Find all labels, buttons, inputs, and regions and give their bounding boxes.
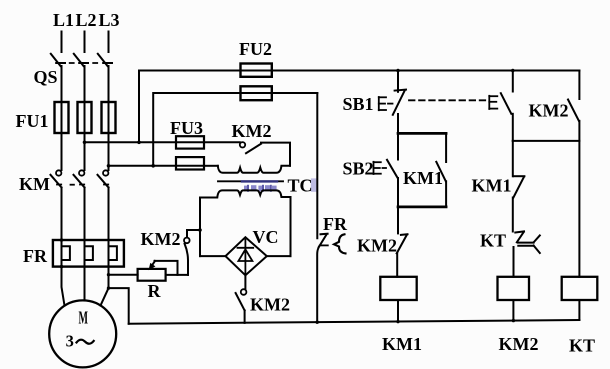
contactor contact KM2 (top, TC primary) bbox=[240, 142, 290, 166]
junction dots on FR box bbox=[60, 238, 64, 242]
button SB2 actuator E bbox=[374, 162, 387, 174]
wire riser to FU2 top bbox=[139, 71, 241, 143]
FR heater element 3 bbox=[109, 246, 117, 260]
button SB1 NC contact bbox=[393, 71, 406, 134]
svg-text:VC: VC bbox=[253, 227, 279, 247]
contactor KM main pole 1 bbox=[51, 170, 62, 266]
wire control left rail upper bbox=[316, 93, 318, 238]
coil KT bbox=[562, 277, 598, 300]
wire fuse2 to KM pole2 bbox=[84, 133, 86, 170]
motor M circle bbox=[49, 300, 116, 367]
svg-text:FU3: FU3 bbox=[170, 118, 203, 138]
wire top rail bbox=[272, 70, 580, 72]
fuse FU1 pole 3 bbox=[102, 102, 116, 133]
svg-text:QS: QS bbox=[33, 67, 57, 87]
switch QS pole 3 bbox=[98, 54, 112, 102]
svg-text:SB2: SB2 bbox=[342, 159, 373, 179]
contact KM2 (top right) bbox=[568, 71, 579, 277]
contactor contact KM2 (brake, near R) bbox=[184, 230, 200, 275]
contactor contact KM2 (below VC) bbox=[236, 275, 247, 323]
svg-text:KM1: KM1 bbox=[382, 334, 422, 354]
wire fuse1 to KM pole1 bbox=[61, 133, 63, 170]
wire secondary left leg bbox=[199, 198, 201, 257]
wire secondary right leg bbox=[290, 197, 292, 256]
button SB1 second NO contact bbox=[501, 71, 513, 141]
fuse FU2 upper bbox=[241, 64, 272, 77]
svg-text:KM1: KM1 bbox=[472, 176, 512, 196]
contact KM1 (parallel) bbox=[436, 133, 446, 207]
svg-text:TC: TC bbox=[287, 176, 312, 196]
svg-text:KM2: KM2 bbox=[141, 229, 181, 249]
wire phase3 to FU3 bottom bbox=[109, 165, 177, 167]
QS mechanical link dashes bbox=[70, 62, 98, 64]
timed contact KT bbox=[514, 231, 540, 276]
svg-text:KM2: KM2 bbox=[250, 295, 290, 315]
svg-text:L1: L1 bbox=[53, 10, 74, 30]
wire to rectifier right bbox=[267, 255, 291, 257]
wire riser to FU2 bottom bbox=[153, 93, 240, 166]
svg-text:KM2: KM2 bbox=[529, 101, 569, 121]
R wiper arrow bbox=[149, 261, 155, 269]
wire phase2 to FU3 top bbox=[85, 141, 177, 143]
switch QS pole 2 bbox=[74, 54, 88, 102]
transformer TC secondary winding bbox=[200, 190, 291, 197]
FR heater element 2 bbox=[85, 246, 93, 260]
wire L1 drop bbox=[61, 32, 63, 53]
wire brake return to phase3 bbox=[109, 288, 129, 324]
svg-text:FU2: FU2 bbox=[239, 39, 272, 59]
fuse FU3 lower bbox=[176, 157, 204, 169]
wire fuse3 to KM pole3 bbox=[108, 133, 110, 170]
contact KM1 (right branch) bbox=[513, 141, 525, 232]
parallel branch bottom bar bbox=[398, 206, 446, 209]
dashed mechanical link SB1 bbox=[409, 99, 488, 101]
svg-text:KT: KT bbox=[569, 336, 595, 356]
svg-text:KM2: KM2 bbox=[357, 236, 397, 256]
svg-text:FU1: FU1 bbox=[16, 111, 49, 131]
svg-text:KM2: KM2 bbox=[499, 334, 539, 354]
svg-text:L3: L3 bbox=[98, 10, 119, 30]
wire FR to motor phase3 bbox=[101, 267, 109, 306]
svg-text:SB1: SB1 bbox=[342, 94, 373, 114]
wire L2 drop bbox=[84, 32, 86, 53]
watermark blue glyph blobs bbox=[244, 178, 316, 191]
wire bottom rail bbox=[129, 320, 580, 324]
motor 3~ label bbox=[66, 332, 94, 351]
button SB2 NO contact bbox=[387, 133, 398, 207]
KM link dash bbox=[71, 184, 74, 186]
wire L3 drop bbox=[108, 32, 110, 53]
svg-text:KM: KM bbox=[19, 174, 50, 194]
junction dots control bbox=[396, 320, 399, 323]
FR hook symbol bbox=[334, 234, 346, 253]
fuse FU1 pole 1 bbox=[55, 102, 69, 133]
junction node to brake branch bbox=[199, 229, 201, 231]
transformer TC primary winding bbox=[218, 166, 290, 173]
fuse FU2 lower bbox=[241, 86, 272, 100]
svg-text:FR: FR bbox=[323, 214, 348, 234]
wire coil KM2 to rail bbox=[512, 300, 514, 321]
watermark blue dashes on core bbox=[242, 180, 277, 182]
rectifier VC diamond bbox=[226, 237, 267, 275]
parallel branch top bar bbox=[398, 132, 446, 135]
diode inside VC bbox=[238, 240, 254, 274]
wire junction row bbox=[513, 140, 580, 142]
svg-text:KM1: KM1 bbox=[403, 168, 443, 188]
svg-text:L2: L2 bbox=[75, 10, 96, 30]
wire R right to KM2 brake blade bbox=[166, 274, 188, 276]
resistor R bbox=[138, 269, 166, 281]
wire FU2 lower to left rail bbox=[272, 92, 318, 94]
thermal contact FR (control) bbox=[317, 234, 328, 323]
wire FU3 bottom to TC primary bbox=[204, 165, 218, 167]
svg-text:R: R bbox=[148, 281, 162, 301]
contact KM2 NC (main branch) bbox=[397, 207, 408, 277]
switch QS pole 1 bbox=[51, 54, 65, 102]
svg-text:FR: FR bbox=[23, 246, 48, 266]
contactor KM main pole 3 bbox=[98, 170, 109, 266]
button SB1 actuator E bbox=[379, 97, 393, 110]
R wiper wiring bbox=[155, 261, 178, 275]
wire coil KM1 to rail bbox=[397, 300, 399, 322]
thermal overload FR box bbox=[53, 240, 124, 267]
transformer TC core bbox=[218, 180, 283, 182]
wire FU3 top to KM2 contact bbox=[204, 141, 240, 143]
wire to rectifier left bbox=[200, 255, 226, 257]
contactor KM main pole 2 bbox=[74, 170, 85, 266]
svg-text:KT: KT bbox=[480, 231, 506, 251]
coil KM2 bbox=[498, 277, 530, 300]
FR heater element 1 bbox=[62, 246, 70, 260]
svg-text:3: 3 bbox=[66, 332, 74, 351]
svg-text:KM2: KM2 bbox=[232, 121, 272, 141]
fuse FU3 upper bbox=[176, 136, 204, 148]
fuse FU1 pole 2 bbox=[78, 102, 92, 133]
wire coil KT to rail bbox=[578, 300, 580, 320]
wire phase3 to R bbox=[109, 274, 138, 276]
wire FR to motor phase1 bbox=[62, 267, 65, 306]
button SB1 second contact actuator E bbox=[489, 96, 497, 109]
wire FR to motor phase2 bbox=[84, 267, 86, 301]
svg-text:M: M bbox=[78, 308, 88, 328]
coil KM1 bbox=[380, 277, 416, 300]
